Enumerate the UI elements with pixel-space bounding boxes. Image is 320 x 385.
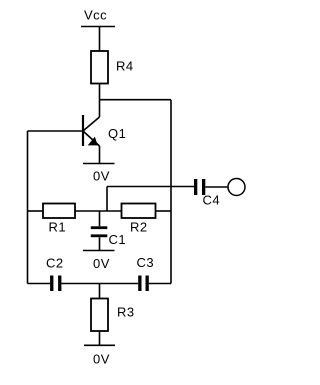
capacitor C1 bbox=[91, 211, 108, 251]
output terminal circle bbox=[228, 179, 245, 196]
wire R3 bottom lead bbox=[99, 331, 101, 345]
wire bottom row left bbox=[28, 283, 51, 285]
wire R4 bottom to collector bbox=[99, 84, 101, 118]
capacitor C4 bbox=[194, 179, 228, 195]
wire R2 to right rail bbox=[156, 210, 172, 212]
wire node row left bbox=[28, 210, 44, 212]
transistor Q1 bbox=[83, 115, 100, 164]
svg-text:C4: C4 bbox=[203, 193, 221, 208]
capacitor C2 bbox=[50, 276, 61, 292]
resistor R1 bbox=[43, 204, 75, 219]
ground bottom 0V bar bbox=[84, 344, 115, 346]
svg-text:C1: C1 bbox=[109, 232, 127, 247]
svg-text:0V: 0V bbox=[93, 169, 110, 184]
svg-text:Vcc: Vcc bbox=[84, 8, 107, 23]
wire output tap stub bbox=[107, 187, 194, 212]
wire right rail bbox=[170, 100, 172, 284]
resistor R2 bbox=[122, 204, 156, 219]
svg-text:0V: 0V bbox=[93, 256, 110, 271]
wire bottom row right bbox=[149, 283, 171, 285]
resistor R4 bbox=[91, 51, 108, 84]
wire between R1 and R2 bbox=[75, 210, 122, 212]
resistor R3 bbox=[91, 299, 108, 332]
svg-text:C3: C3 bbox=[137, 255, 155, 270]
Vcc supply symbol bbox=[81, 27, 115, 52]
capacitor C3 bbox=[138, 276, 149, 292]
wire collector node to right rail bbox=[100, 99, 172, 101]
svg-text:R4: R4 bbox=[116, 59, 134, 74]
svg-text:0V: 0V bbox=[93, 352, 110, 367]
svg-text:R2: R2 bbox=[130, 220, 148, 235]
svg-text:R1: R1 bbox=[49, 220, 67, 235]
wire bottom row middle bbox=[61, 283, 138, 285]
svg-text:Q1: Q1 bbox=[108, 126, 126, 141]
svg-text:C2: C2 bbox=[46, 256, 64, 271]
svg-text:R3: R3 bbox=[117, 305, 135, 320]
wire R3 top lead bbox=[99, 284, 101, 299]
ground C1 0V bar bbox=[83, 250, 115, 252]
wire left rail bbox=[27, 131, 29, 284]
wire base lead bbox=[28, 130, 84, 132]
ground emitter 0V bar bbox=[83, 163, 115, 165]
